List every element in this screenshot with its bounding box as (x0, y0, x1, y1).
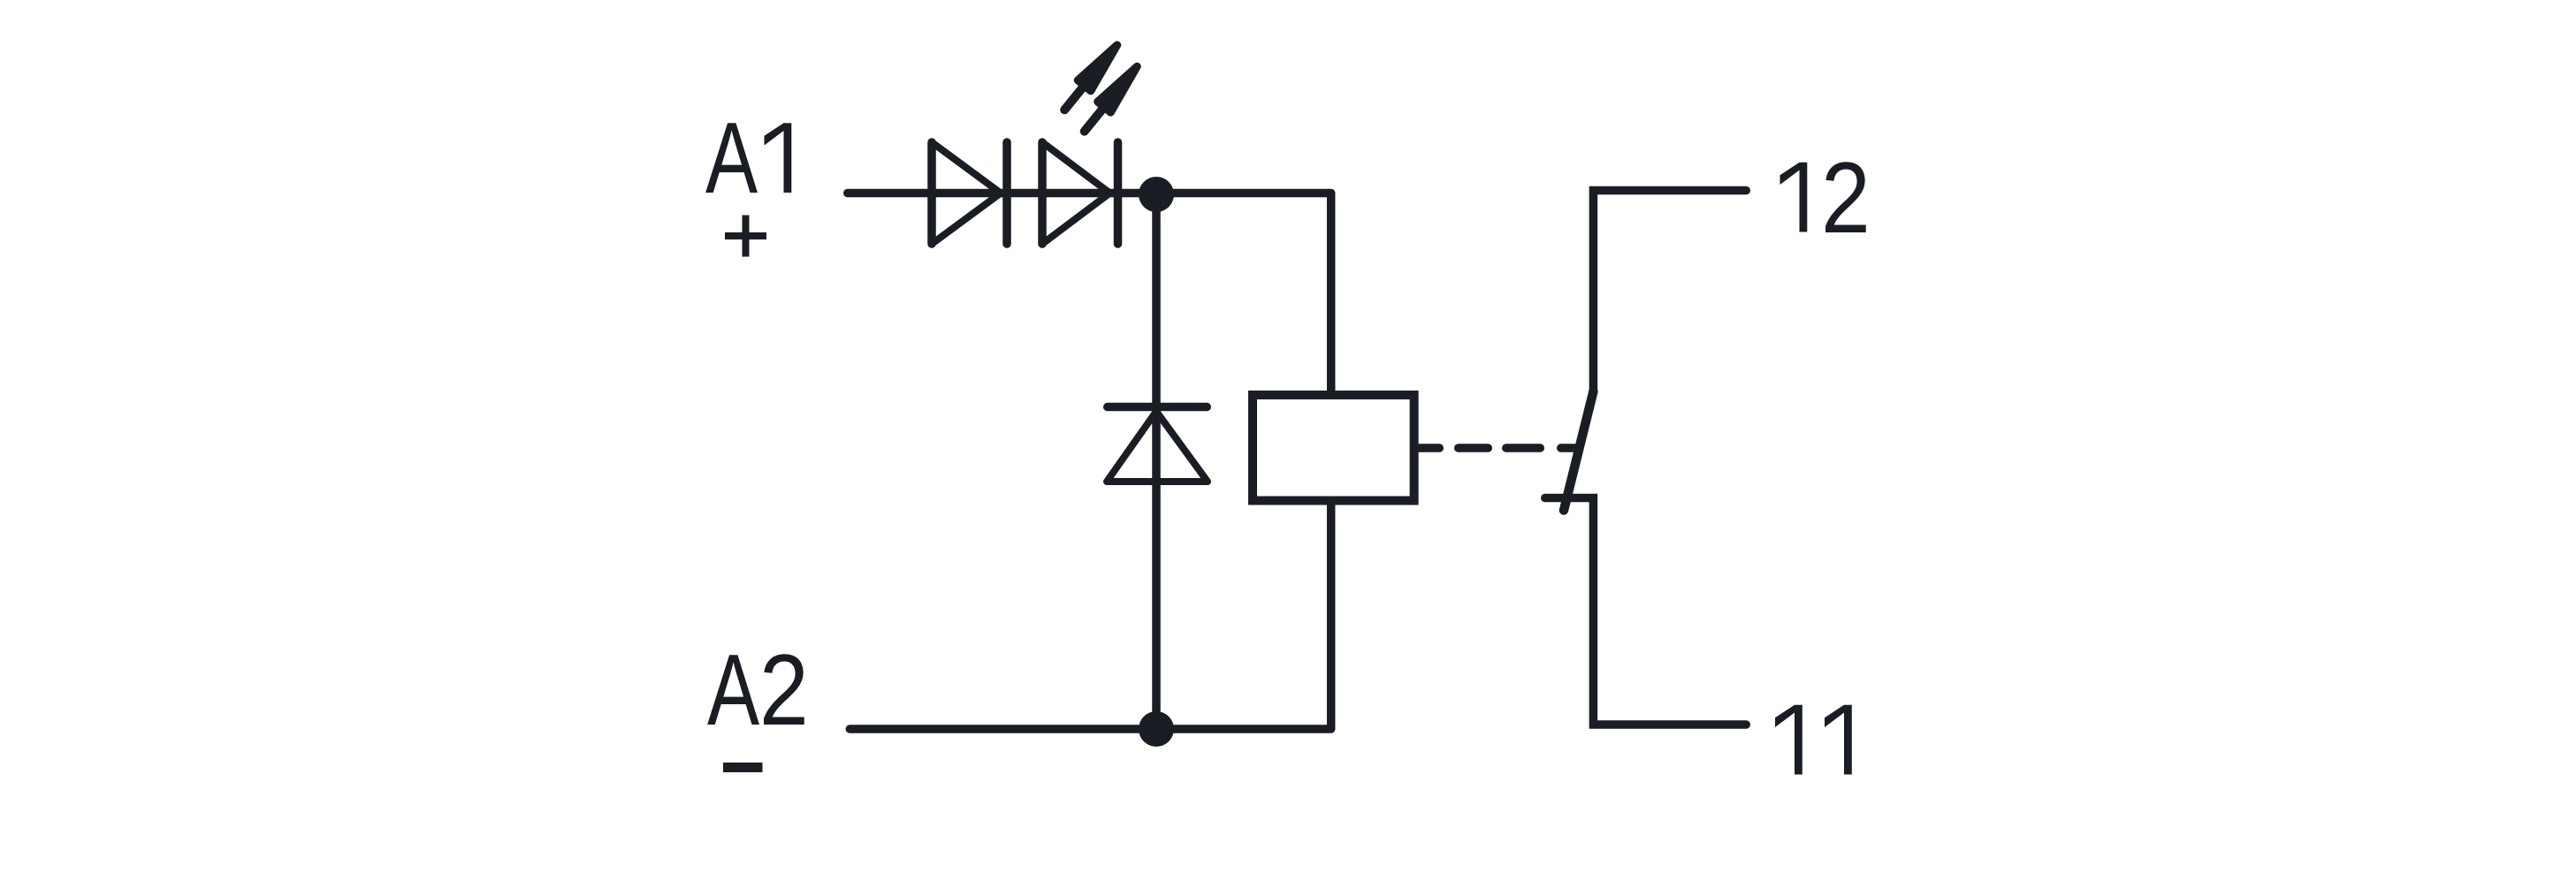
LED D2 (status indicator) (1042, 142, 1118, 244)
diode D1 (series polarity protection) (932, 142, 1007, 244)
mechanical link (dashed) from coil to contact (1415, 444, 1574, 452)
contact: movable arm (NC) (1564, 391, 1593, 511)
relay coil K1 (1253, 395, 1414, 501)
diode D3 (freewheeling, cathode bar) (1107, 407, 1208, 482)
wire: A2 horizontal rail (850, 725, 1330, 733)
wire: coil bottom lead (1327, 501, 1336, 730)
terminal label 12 (1780, 141, 1871, 254)
polarity mark plus (725, 216, 766, 257)
wire: snubber branch vertical (1152, 194, 1161, 730)
polarity mark minus (723, 763, 763, 772)
terminal label A1 (705, 102, 791, 214)
svg-text:A: A (705, 102, 758, 214)
contact: fixed contact tick, lower lead and terminal 11 wire (1545, 498, 1747, 725)
svg-text:2: 2 (759, 634, 809, 746)
contact: terminal 12 wire and upper fixed lead (1593, 191, 1746, 391)
LED D2 light emission arrows (1078, 45, 1137, 112)
wire: coil top lead (1327, 194, 1336, 396)
svg-text:2: 2 (1821, 141, 1871, 254)
svg-text:A: A (707, 634, 759, 746)
node: top junction (1139, 177, 1174, 212)
terminal label A2 (707, 634, 809, 747)
node: bottom junction (1139, 711, 1174, 747)
terminal label 11 (1775, 705, 1852, 775)
wire: A1 horizontal rail (848, 189, 1331, 198)
